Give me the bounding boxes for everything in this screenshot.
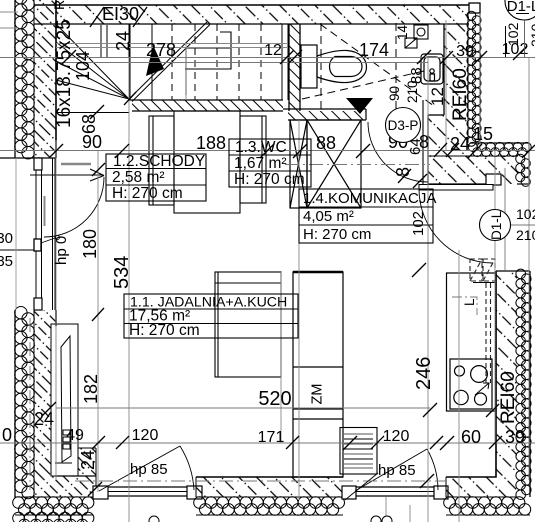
insulation alcove vertical xyxy=(516,154,531,186)
svg-text:R: R xyxy=(51,0,67,10)
stair landing band xyxy=(128,100,283,111)
dining table xyxy=(215,272,281,377)
closets under stairs xyxy=(149,111,266,213)
wall right upper xyxy=(423,11,481,184)
svg-text:88: 88 xyxy=(316,133,336,153)
svg-text:24: 24 xyxy=(34,409,54,429)
svg-text:90: 90 xyxy=(387,86,402,101)
insulation bottom right xyxy=(444,497,531,515)
stair room south edge line xyxy=(56,112,129,114)
label box KOMUNIKACJA xyxy=(299,189,433,243)
svg-text:REI60: REI60 xyxy=(450,68,471,121)
svg-text:24: 24 xyxy=(450,134,470,154)
EI30 label xyxy=(90,7,147,27)
svg-text:1.4.KOMUNIKACJA: 1.4.KOMUNIKACJA xyxy=(303,190,436,207)
dimension row A y57.5 xyxy=(0,58,535,63)
svg-text:24: 24 xyxy=(113,31,133,51)
insulation bottom left corner xyxy=(13,497,94,522)
window 1 swing xyxy=(99,446,194,491)
stairs opening step lines xyxy=(185,32,231,95)
svg-text:102: 102 xyxy=(410,211,427,236)
WC bottom wall band xyxy=(283,109,366,120)
svg-text:210: 210 xyxy=(405,80,420,103)
insulation right upper xyxy=(467,11,481,146)
wall left lower with insulation xyxy=(15,307,96,499)
extra ticks xyxy=(42,92,499,496)
svg-text:H: 270 cm: H: 270 cm xyxy=(234,171,305,188)
svg-text:180: 180 xyxy=(80,229,100,259)
label box SCHODY xyxy=(106,154,206,201)
dimension row B y150.5 xyxy=(0,150,535,152)
door bubble top right xyxy=(505,0,535,57)
tick on stair south edge xyxy=(90,105,104,119)
insulation bottom mid xyxy=(194,497,345,515)
WC dashed partition xyxy=(395,23,397,111)
dash-dot axis lines xyxy=(30,165,447,491)
wall between stairs and WC xyxy=(289,24,300,111)
insulation bottom-left row2 xyxy=(13,512,94,522)
svg-text:85: 85 xyxy=(0,253,13,270)
svg-text:15: 15 xyxy=(473,124,493,144)
door D3-P swing xyxy=(368,122,428,182)
insulation right lower xyxy=(516,269,531,499)
shaft boxes with X xyxy=(290,120,361,208)
svg-text:14: 14 xyxy=(395,24,410,40)
svg-text:H: 270 cm: H: 270 cm xyxy=(303,226,371,243)
stairs direction arrow xyxy=(146,45,164,76)
svg-text:102: 102 xyxy=(505,22,521,46)
svg-text:1.2.SCHODY: 1.2.SCHODY xyxy=(113,153,205,170)
left edge partial texts xyxy=(0,249,42,251)
bottom wall mid block xyxy=(194,477,345,515)
svg-text:171: 171 xyxy=(258,429,285,446)
stair guard lines xyxy=(56,43,288,45)
svg-text:REI60: REI60 xyxy=(498,371,519,424)
arrow near stove xyxy=(475,383,489,395)
svg-text:49: 49 xyxy=(66,427,84,444)
svg-text:210: 210 xyxy=(528,23,535,47)
svg-text:39: 39 xyxy=(505,427,525,447)
svg-text:188: 188 xyxy=(196,133,226,153)
svg-text:1,67 m²: 1,67 m² xyxy=(234,155,287,172)
kitchen right counter xyxy=(447,273,497,411)
door D1-L leaf and jamb xyxy=(419,174,501,263)
svg-text:174: 174 xyxy=(359,40,389,60)
svg-text:2,58 m²: 2,58 m² xyxy=(112,169,165,186)
svg-text:1.3.WC: 1.3.WC xyxy=(235,139,287,156)
door leaf balcony left xyxy=(30,164,104,237)
bottom wall right + right wall lower xyxy=(15,269,531,515)
svg-text:D1-L: D1-L xyxy=(489,210,504,240)
stairs winders xyxy=(56,24,129,99)
sink unit xyxy=(340,428,377,475)
fridge dashed appliance xyxy=(470,259,495,383)
svg-text:60: 60 xyxy=(461,427,481,447)
svg-text:68: 68 xyxy=(79,114,99,134)
svg-text:104: 104 xyxy=(73,51,93,81)
insulation bottom-left row1 xyxy=(13,497,94,515)
svg-text:120: 120 xyxy=(132,427,159,444)
svg-text:12: 12 xyxy=(264,42,282,59)
wall top band xyxy=(34,3,480,24)
svg-text:534: 534 xyxy=(111,256,133,289)
svg-text:30: 30 xyxy=(0,230,13,247)
toilet xyxy=(301,45,367,88)
label box WC xyxy=(229,139,311,187)
door bubble D3-P xyxy=(386,108,421,143)
svg-text:8: 8 xyxy=(393,167,413,177)
svg-text:246: 246 xyxy=(413,357,435,390)
svg-text:hp 85: hp 85 xyxy=(130,461,168,478)
svg-text:H: 270 cm: H: 270 cm xyxy=(129,322,200,339)
svg-text:39: 39 xyxy=(456,43,474,60)
svg-text:182: 182 xyxy=(81,374,101,404)
svg-text:90: 90 xyxy=(82,132,102,152)
stairs break line xyxy=(129,22,210,102)
stairs treads xyxy=(130,24,288,100)
svg-text:L: L xyxy=(462,298,477,306)
insulation corner horizontal xyxy=(468,142,531,156)
handrail post xyxy=(100,25,102,58)
kitchen left column xyxy=(293,272,343,477)
svg-text:520: 520 xyxy=(258,388,291,410)
svg-text:D3-P: D3-P xyxy=(388,118,419,133)
svg-text:hp 0: hp 0 xyxy=(53,236,70,265)
window 2 swing xyxy=(355,449,438,491)
bottom partial axis circles xyxy=(149,516,392,522)
insulation left wall lower xyxy=(15,307,35,499)
label box JADALNIA xyxy=(124,294,298,338)
bottom wall: window 1 sill xyxy=(93,486,202,499)
door bubble D1-L xyxy=(480,168,535,270)
svg-text:24: 24 xyxy=(78,450,98,470)
radiator xyxy=(51,324,78,476)
svg-text:12: 12 xyxy=(428,87,447,106)
door D3-P threshold triangle xyxy=(346,98,373,114)
window left (hp 0) frame xyxy=(34,158,55,310)
washbasin xyxy=(421,54,443,84)
svg-text:102: 102 xyxy=(516,206,535,222)
WC dashed slope lines xyxy=(320,24,434,106)
insulation left wall upper xyxy=(15,0,35,159)
svg-text:EI30: EI30 xyxy=(102,4,139,24)
svg-text:120: 120 xyxy=(383,428,410,445)
wall corner entrance (top of alcove) xyxy=(428,142,531,186)
svg-text:D1-L: D1-L xyxy=(507,0,535,15)
svg-text:278: 278 xyxy=(146,40,176,60)
svg-text:ZM: ZM xyxy=(310,384,326,405)
row A ticks xyxy=(62,46,527,64)
svg-text:4,05 m²: 4,05 m² xyxy=(303,208,354,225)
dimension row D y408 xyxy=(56,407,430,409)
svg-text:16x18.75x25: 16x18.75x25 xyxy=(54,19,75,128)
svg-text:H: 270 cm: H: 270 cm xyxy=(112,185,183,202)
washbasin nook fixtures xyxy=(405,25,428,48)
axis elbow near counter xyxy=(452,297,477,315)
wall left upper with insulation xyxy=(0,0,56,159)
stove xyxy=(450,359,492,409)
svg-text:0: 0 xyxy=(2,425,12,445)
svg-text:hp 85: hp 85 xyxy=(378,462,416,479)
svg-text:210: 210 xyxy=(516,227,535,243)
dimension row C y443 xyxy=(0,442,535,444)
bottom wall: window 2 sill xyxy=(342,486,448,499)
